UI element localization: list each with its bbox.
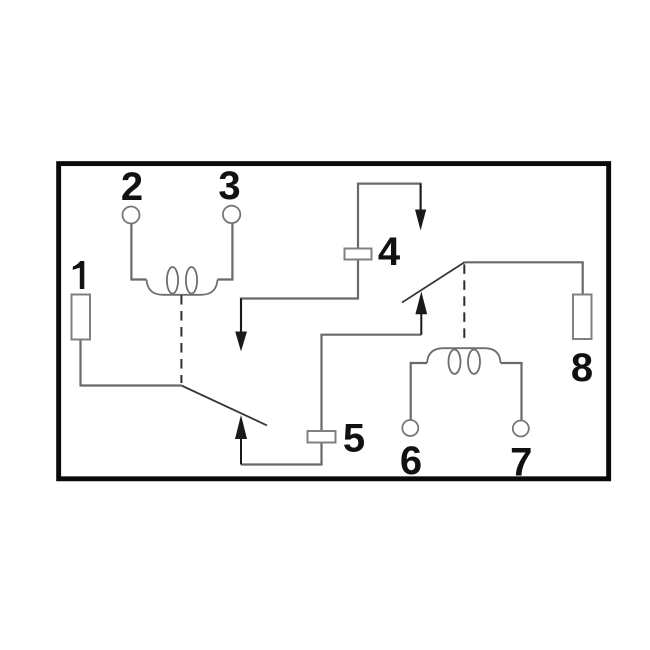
svg-text:4: 4 [378,230,401,274]
svg-text:6: 6 [400,439,422,483]
svg-text:7: 7 [510,440,532,484]
svg-text:5: 5 [343,417,365,461]
svg-text:8: 8 [571,346,593,390]
svg-text:2: 2 [121,165,143,209]
svg-text:3: 3 [218,164,240,208]
